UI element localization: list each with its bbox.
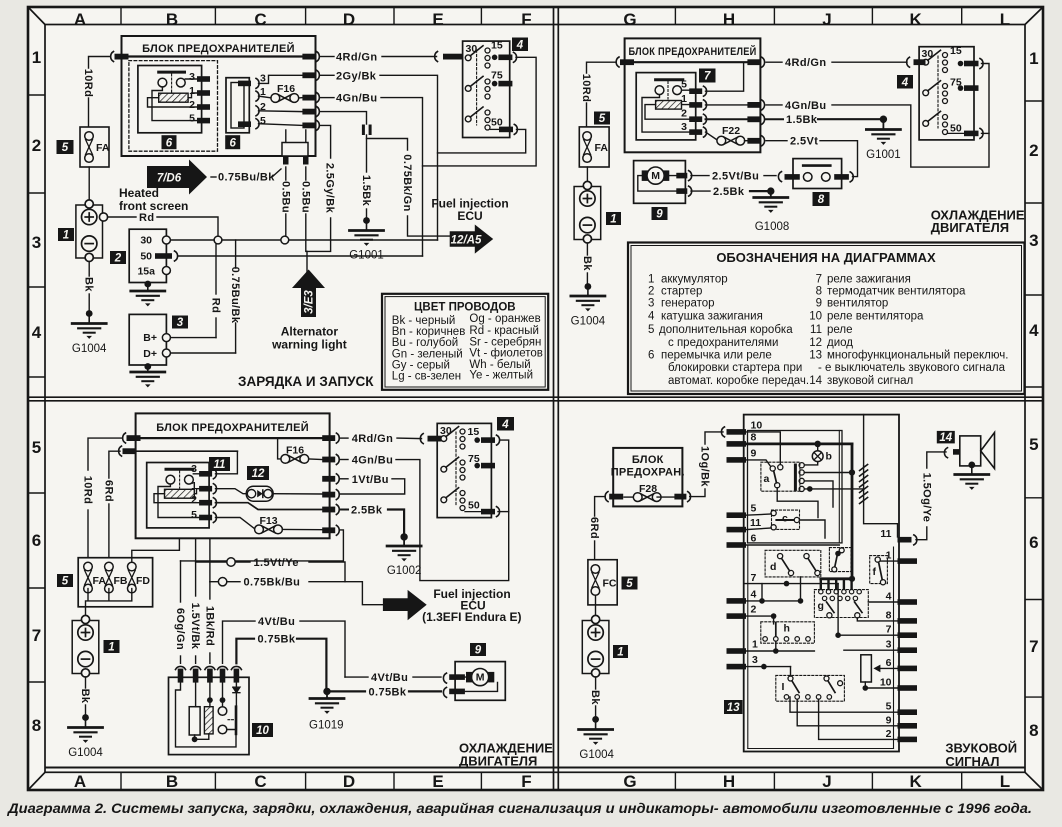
ground G1004 Q2 <box>571 296 605 311</box>
pin 11 connector <box>914 535 917 545</box>
wire contact3 <box>804 481 833 507</box>
switch a <box>761 462 800 491</box>
wire 10Rd Q2 <box>587 62 616 73</box>
wire Bk to ground Q4 <box>595 678 597 690</box>
svg-text:5: 5 <box>648 324 654 336</box>
ignition switch 4 Q2 <box>919 47 974 140</box>
svg-text:9: 9 <box>886 714 892 726</box>
bus wire Q2 <box>622 61 747 63</box>
svg-text:D: D <box>343 10 355 29</box>
svg-text:2: 2 <box>751 604 757 616</box>
starter lockout relay 6 <box>138 66 202 133</box>
wire 1.5Bk to G1001 <box>366 135 368 172</box>
connector pin bus left <box>115 54 129 60</box>
label 5 Q3 <box>57 574 73 587</box>
svg-text:G1004: G1004 <box>571 316 606 328</box>
quadrant divider vertical <box>554 7 559 790</box>
svg-text:БЛОК ПРЕДОХРАНИТЕЛЕЙ: БЛОК ПРЕДОХРАНИТЕЛЕЙ <box>142 42 295 55</box>
svg-text:многофункциональный переключ.: многофункциональный переключ. <box>827 349 1008 361</box>
svg-text:G1001: G1001 <box>349 250 384 262</box>
wire row9 right <box>797 699 897 726</box>
svg-text:4Vt/Bu: 4Vt/Bu <box>258 616 295 628</box>
wire pin5 row <box>259 124 303 126</box>
quadrant divider horizontal <box>28 397 1043 401</box>
svg-text:15a: 15a <box>137 266 155 278</box>
fan motor 9 Q3 <box>455 662 505 701</box>
ground G1004 <box>72 324 106 339</box>
contact dots <box>943 53 948 58</box>
connector pin bus left <box>620 59 634 65</box>
svg-text:B: B <box>166 10 178 29</box>
svg-text:I: I <box>782 681 785 693</box>
contact dots Q3 switch <box>460 429 465 434</box>
svg-text:0.75Bk: 0.75Bk <box>258 634 296 646</box>
relay 11 internal wires <box>154 474 199 518</box>
fuse box Q4 connectors <box>609 494 623 500</box>
wire label 4Rd/Gn Q2 <box>766 61 782 63</box>
svg-text:Диаграмма 2. Системы запуска,: Диаграмма 2. Системы запуска, зарядки, о… <box>7 801 1032 816</box>
svg-text:аккумулятор: аккумулятор <box>661 273 728 285</box>
label 5 Q4 <box>622 577 638 590</box>
wire colours legend box <box>382 294 548 390</box>
wire links to battery <box>86 589 132 615</box>
svg-text:Bk: Bk <box>79 689 91 704</box>
svg-text:9: 9 <box>816 298 822 310</box>
svg-text:1: 1 <box>32 48 41 67</box>
svg-text:1: 1 <box>191 480 197 492</box>
svg-text:g: g <box>818 600 824 612</box>
svg-text:8: 8 <box>818 194 825 206</box>
arrow 7/D6 <box>147 160 207 195</box>
svg-text:B+: B+ <box>143 332 157 344</box>
switch d <box>765 550 821 577</box>
thermal switch 8 <box>793 159 842 189</box>
svg-text:c: c <box>782 513 788 525</box>
wire 1Bk/Rd <box>209 582 211 599</box>
wire label 2Gy/Bk <box>321 74 335 76</box>
svg-text:5: 5 <box>886 701 892 713</box>
svg-text:Gn - зеленый: Gn - зеленый <box>392 349 463 361</box>
svg-text:дополнительная коробка: дополнительная коробка <box>659 324 793 336</box>
fusible links box 5 Q3 <box>78 558 152 607</box>
ignition switch 4 <box>463 41 510 137</box>
svg-text:БЛОК: БЛОК <box>632 454 664 466</box>
svg-text:11: 11 <box>214 459 226 471</box>
relay 7 coil <box>656 101 682 110</box>
wire label 2.5Vt <box>766 140 787 142</box>
svg-text:10: 10 <box>256 725 269 737</box>
wire c out <box>800 520 825 538</box>
svg-text:0.75Bk: 0.75Bk <box>369 686 407 698</box>
svg-text:1: 1 <box>610 214 616 226</box>
svg-text:Alternator: Alternator <box>281 325 339 339</box>
wire Bk to ground Q3 <box>85 678 87 689</box>
relay 11 pins <box>199 471 212 477</box>
wire Bk to ground Q2 <box>586 244 588 256</box>
svg-text:75: 75 <box>491 70 503 82</box>
svg-text:1Bk/Rd: 1Bk/Rd <box>203 606 215 646</box>
wire row2 right <box>819 699 898 739</box>
wire 4Vt/Bu pin4 <box>223 621 256 663</box>
fuse block box Q2 <box>625 38 761 152</box>
svg-text:автомат. коробке передач.: автомат. коробке передач. <box>668 375 809 387</box>
svg-text:2: 2 <box>681 108 687 120</box>
wire 0.5Bu left <box>285 167 287 180</box>
svg-text:7/D6: 7/D6 <box>157 173 182 185</box>
svg-text:5: 5 <box>32 438 41 457</box>
wire a to c area <box>777 488 818 518</box>
relay 7 internal wires <box>642 90 689 132</box>
svg-text:1.5Vt/Bk: 1.5Vt/Bk <box>189 603 201 650</box>
svg-text:6: 6 <box>229 138 236 150</box>
svg-text:ПРЕДОХРАН.: ПРЕДОХРАН. <box>611 467 685 479</box>
svg-text:FC: FC <box>603 578 617 590</box>
switch inner box <box>748 431 843 543</box>
wire row7 left <box>745 583 839 585</box>
svg-text:10: 10 <box>751 420 763 432</box>
label 1 Q3 <box>104 640 120 653</box>
svg-text:8: 8 <box>816 286 822 298</box>
svg-text:7: 7 <box>816 273 822 285</box>
svg-text:50: 50 <box>140 251 152 263</box>
svg-text:4Gn/Bu: 4Gn/Bu <box>785 100 827 112</box>
svg-text:14: 14 <box>939 432 952 444</box>
switch contact dots 75 <box>485 79 490 84</box>
node contact4 <box>807 486 813 492</box>
svg-text:6Rd: 6Rd <box>102 480 114 502</box>
svg-text:d: d <box>770 561 776 573</box>
svg-text:ЦВЕТ ПРОВОДОВ: ЦВЕТ ПРОВОДОВ <box>414 302 516 314</box>
svg-text:1: 1 <box>108 642 114 654</box>
wire pin1 to 4Gn/Bu row <box>706 104 748 106</box>
svg-text:3: 3 <box>752 654 758 666</box>
lamp b <box>812 451 823 462</box>
wire stubs into housing <box>286 130 306 143</box>
svg-text:Rd: Rd <box>210 298 222 313</box>
svg-text:4Vt/Bu: 4Vt/Bu <box>371 672 408 684</box>
svg-text:warning light: warning light <box>271 338 347 352</box>
wire F13 return <box>181 530 344 561</box>
svg-text:5: 5 <box>260 115 266 127</box>
svg-text:13: 13 <box>727 702 740 714</box>
svg-text:4Gn/Bu: 4Gn/Bu <box>336 93 378 105</box>
jumper 6 <box>226 78 249 133</box>
svg-text:4: 4 <box>886 591 892 603</box>
legend entries left <box>648 273 809 387</box>
svg-text:перемычка или реле: перемычка или реле <box>661 349 772 361</box>
svg-text:9: 9 <box>475 645 482 657</box>
label 5 <box>594 112 610 125</box>
svg-text:звуковой сигнал: звуковой сигнал <box>827 375 913 387</box>
svg-text:2.5Bk: 2.5Bk <box>351 505 383 517</box>
node 0.75Bk/Bu <box>218 578 226 586</box>
svg-text:4: 4 <box>516 40 524 52</box>
wire 10Rd Q3 <box>88 438 122 470</box>
wire label 0.75Bk/Bu <box>227 581 240 583</box>
svg-text:1Og/Bk: 1Og/Bk <box>699 446 711 487</box>
svg-text:11: 11 <box>810 324 822 336</box>
svg-text:G1002: G1002 <box>387 565 422 577</box>
node junction 30 <box>214 236 222 244</box>
svg-text:10Rd: 10Rd <box>82 69 94 98</box>
svg-text:5: 5 <box>626 578 633 590</box>
svg-text:6: 6 <box>648 349 654 361</box>
svg-text:5: 5 <box>751 503 757 515</box>
svg-text:4Gn/Bu: 4Gn/Bu <box>352 455 394 467</box>
wire 0.75Bk pin5 <box>236 639 254 664</box>
wire row4 right <box>868 601 897 603</box>
svg-text:генератор: генератор <box>661 298 715 310</box>
bus wire 30-feed <box>128 55 303 57</box>
fusible link FA <box>80 127 109 167</box>
switch f <box>870 556 888 584</box>
label 12 <box>247 466 269 480</box>
svg-text:6: 6 <box>1029 533 1038 552</box>
switch i <box>776 675 845 701</box>
svg-text:БЛОК ПРЕДОХРАНИТЕЛЕЙ: БЛОК ПРЕДОХРАНИТЕЛЕЙ <box>629 45 757 58</box>
battery 1 Q2 <box>574 181 601 243</box>
svg-text:3/E3: 3/E3 <box>304 290 316 314</box>
svg-text:8: 8 <box>1029 721 1038 740</box>
svg-text:15: 15 <box>468 426 480 438</box>
svg-text:0.5Bu: 0.5Bu <box>279 181 291 213</box>
svg-text:6: 6 <box>166 138 173 150</box>
contact circles column <box>799 463 804 468</box>
label 11 <box>209 457 230 471</box>
svg-text:9: 9 <box>656 209 663 221</box>
svg-text:10: 10 <box>880 677 892 689</box>
jumper pin arcs and numbers <box>256 78 259 88</box>
inline connector <box>362 125 365 136</box>
svg-text:4: 4 <box>901 77 909 89</box>
svg-text:6: 6 <box>32 531 41 550</box>
wire 0.75Bk/Gn <box>367 139 408 151</box>
grid letters bottom <box>74 772 1010 791</box>
ignition relay 7 <box>636 73 696 140</box>
svg-text:вентилятор: вентилятор <box>827 298 888 310</box>
svg-text:ECU: ECU <box>457 209 482 223</box>
svg-text:2: 2 <box>1029 141 1038 160</box>
legend entries right <box>809 273 1008 387</box>
svg-text:1: 1 <box>681 93 687 105</box>
switch contact dots 15 <box>485 48 490 53</box>
svg-text:Rd - красный: Rd - красный <box>469 325 539 337</box>
legend box ОБОЗНАЧЕНИЯ <box>628 243 1025 395</box>
node 1.5Vt/Ye <box>227 558 235 566</box>
arrow Fuel injection ECU <box>383 590 427 620</box>
relay 7 pins <box>689 88 702 94</box>
svg-text:3: 3 <box>177 317 184 329</box>
starter relay 2 <box>129 229 166 282</box>
wire diode to row4 <box>272 493 322 495</box>
svg-text:FB: FB <box>114 575 128 587</box>
svg-text:катушка зажигания: катушка зажигания <box>661 311 763 323</box>
svg-text:10Rd: 10Rd <box>82 476 94 505</box>
svg-text:FA: FA <box>96 142 110 154</box>
wire 1Og/Bk <box>690 489 705 497</box>
svg-text:11: 11 <box>750 517 761 529</box>
wire row4 left <box>746 600 801 602</box>
wire 6Rd Q4 <box>595 497 605 516</box>
wire row6 right with arrow <box>879 667 898 669</box>
svg-text:M: M <box>651 170 660 182</box>
wire label 4Gn/Bu Q3 <box>341 459 348 461</box>
wire 6Og/Gn <box>180 561 182 602</box>
svg-text:БЛОК ПРЕДОХРАНИТЕЛЕЙ: БЛОК ПРЕДОХРАНИТЕЛЕЙ <box>156 421 309 434</box>
label 4 Q2 <box>897 75 913 89</box>
svg-text:(1.3EFI Endura E): (1.3EFI Endura E) <box>422 610 521 624</box>
connector housing 0.5Bu <box>282 143 308 157</box>
label 4 Q3 <box>497 417 514 431</box>
svg-text:0.75Bk/Gn: 0.75Bk/Gn <box>401 154 413 211</box>
wire label 4Rd/Gn Q3 <box>341 437 348 439</box>
svg-text:2Gy/Bk: 2Gy/Bk <box>336 70 377 82</box>
fuse box Q3 right connectors <box>322 435 335 441</box>
relay 11 <box>147 463 209 528</box>
svg-text:12: 12 <box>252 468 265 480</box>
ground alternator <box>144 363 151 370</box>
svg-text:f: f <box>873 566 877 578</box>
diode 12 <box>246 486 273 501</box>
wire lamp to contact <box>804 462 817 465</box>
wire Rd battery to junction <box>108 216 136 218</box>
svg-text:2.5Bk: 2.5Bk <box>713 186 745 198</box>
svg-text:2: 2 <box>114 253 122 265</box>
svg-text:12: 12 <box>809 337 822 349</box>
wire row10 right <box>865 687 897 689</box>
label 6 <box>162 135 177 149</box>
pin 30 Q2 <box>907 57 910 67</box>
resistor right <box>861 655 872 682</box>
svg-text:Og - оранжев: Og - оранжев <box>469 313 540 325</box>
label 13 <box>724 700 743 714</box>
svg-text:H: H <box>723 10 735 29</box>
svg-text:G: G <box>623 10 636 29</box>
svg-text:1.5Vt/Ye: 1.5Vt/Ye <box>254 557 299 569</box>
wire bus2 to pin3 <box>216 451 238 474</box>
wire label 4Vt/Bu motor <box>345 676 368 678</box>
wire label 1.5Vt/Ye <box>235 561 250 563</box>
svg-text:Bu - голубой: Bu - голубой <box>392 337 458 349</box>
node G1019 <box>323 688 330 695</box>
svg-text:G1004: G1004 <box>68 747 103 759</box>
svg-text:10: 10 <box>809 311 822 323</box>
svg-text:4Rd/Gn: 4Rd/Gn <box>352 433 394 445</box>
svg-text:A: A <box>74 772 86 791</box>
svg-text:4Rd/Gn: 4Rd/Gn <box>336 52 378 64</box>
svg-text:3: 3 <box>1029 231 1038 250</box>
svg-text:4Rd/Gn: 4Rd/Gn <box>785 57 827 69</box>
svg-text:5: 5 <box>681 79 687 91</box>
wire switch 50 loop <box>438 129 526 153</box>
svg-text:2.5Vt: 2.5Vt <box>790 136 818 148</box>
switch contact dots 50 <box>485 110 490 115</box>
svg-text:14: 14 <box>809 375 822 387</box>
wire FC to battery <box>595 595 597 615</box>
svg-text:Vt - фиолетов: Vt - фиолетов <box>469 348 542 360</box>
svg-text:F: F <box>521 772 531 791</box>
wire label 2.5Bk <box>691 190 710 192</box>
svg-text:L: L <box>1000 10 1010 29</box>
svg-text:0.75Bu/Bk: 0.75Bu/Bk <box>229 267 241 324</box>
svg-text:3: 3 <box>648 298 654 310</box>
ground G1004 Q3 <box>69 728 103 743</box>
svg-text:11: 11 <box>880 528 891 540</box>
svg-text:2: 2 <box>189 99 195 111</box>
label 14 <box>937 431 955 444</box>
wire row11 to c <box>746 528 771 530</box>
svg-text:термодатчик вентилятора: термодатчик вентилятора <box>827 286 966 298</box>
svg-text:a: a <box>764 473 770 485</box>
svg-text:3: 3 <box>886 639 892 651</box>
wire row3 left <box>746 666 791 668</box>
svg-text:H: H <box>723 772 735 791</box>
svg-text:реле зажигания: реле зажигания <box>827 273 911 285</box>
svg-text:- е выключатель звукового сигн: - е выключатель звукового сигнала <box>818 362 1006 374</box>
wire switch 50 stub <box>982 132 990 134</box>
svg-text:Bk: Bk <box>83 277 95 292</box>
svg-text:1: 1 <box>1029 49 1038 68</box>
svg-text:C: C <box>254 772 266 791</box>
left pins of switch 13 <box>727 429 747 435</box>
node junction 0.5Bu <box>281 236 289 244</box>
svg-text:3: 3 <box>32 233 41 252</box>
wire row6 <box>746 544 839 546</box>
label 5 <box>57 140 74 154</box>
svg-text:1: 1 <box>63 230 69 242</box>
wire row4 to connector <box>321 112 367 124</box>
fusible link FA Q2 <box>579 127 609 167</box>
svg-text:K: K <box>909 10 922 29</box>
svg-text:с предохранителями: с предохранителями <box>668 337 778 349</box>
wire row7 right <box>838 634 897 636</box>
battery 1 Q4 <box>582 615 609 677</box>
svg-text:6: 6 <box>751 533 757 545</box>
svg-text:b: b <box>826 451 832 463</box>
svg-text:G1001: G1001 <box>866 149 901 161</box>
wire switch 50 stub Q3 <box>498 511 509 513</box>
svg-text:1.5Og/Ye: 1.5Og/Ye <box>920 473 932 523</box>
svg-text:Ye - желтый: Ye - желтый <box>469 370 533 382</box>
svg-text:5: 5 <box>62 142 69 154</box>
thick comb stubs <box>821 579 852 590</box>
wire contact2 to bus <box>804 472 852 474</box>
svg-text:50: 50 <box>468 500 480 512</box>
svg-text:E: E <box>432 772 443 791</box>
svg-text:J: J <box>822 772 831 791</box>
grid numbers right <box>1029 49 1039 740</box>
wire row5 right <box>790 697 898 712</box>
svg-text:реле вентилятора: реле вентилятора <box>827 311 924 323</box>
svg-text:30: 30 <box>140 235 152 247</box>
wire pin3 to 2Gy/Bk <box>259 75 303 83</box>
svg-text:FD: FD <box>136 575 150 587</box>
relay 10 pins <box>176 666 242 669</box>
svg-text:4: 4 <box>751 589 757 601</box>
wire row1 left <box>746 650 814 652</box>
svg-text:3: 3 <box>260 73 266 85</box>
svg-text:2: 2 <box>648 286 654 298</box>
battery 1 Q3 <box>72 615 99 677</box>
wire pin1 to diode <box>216 489 248 494</box>
switch blades <box>465 55 471 61</box>
svg-text:5: 5 <box>189 113 195 125</box>
svg-text:G1004: G1004 <box>579 749 614 761</box>
ground G1004 Q4 <box>579 730 613 745</box>
svg-text:ЗАРЯДКА И ЗАПУСК: ЗАРЯДКА И ЗАПУСК <box>238 374 374 389</box>
svg-text:4: 4 <box>32 323 42 342</box>
svg-text:15: 15 <box>491 40 503 52</box>
